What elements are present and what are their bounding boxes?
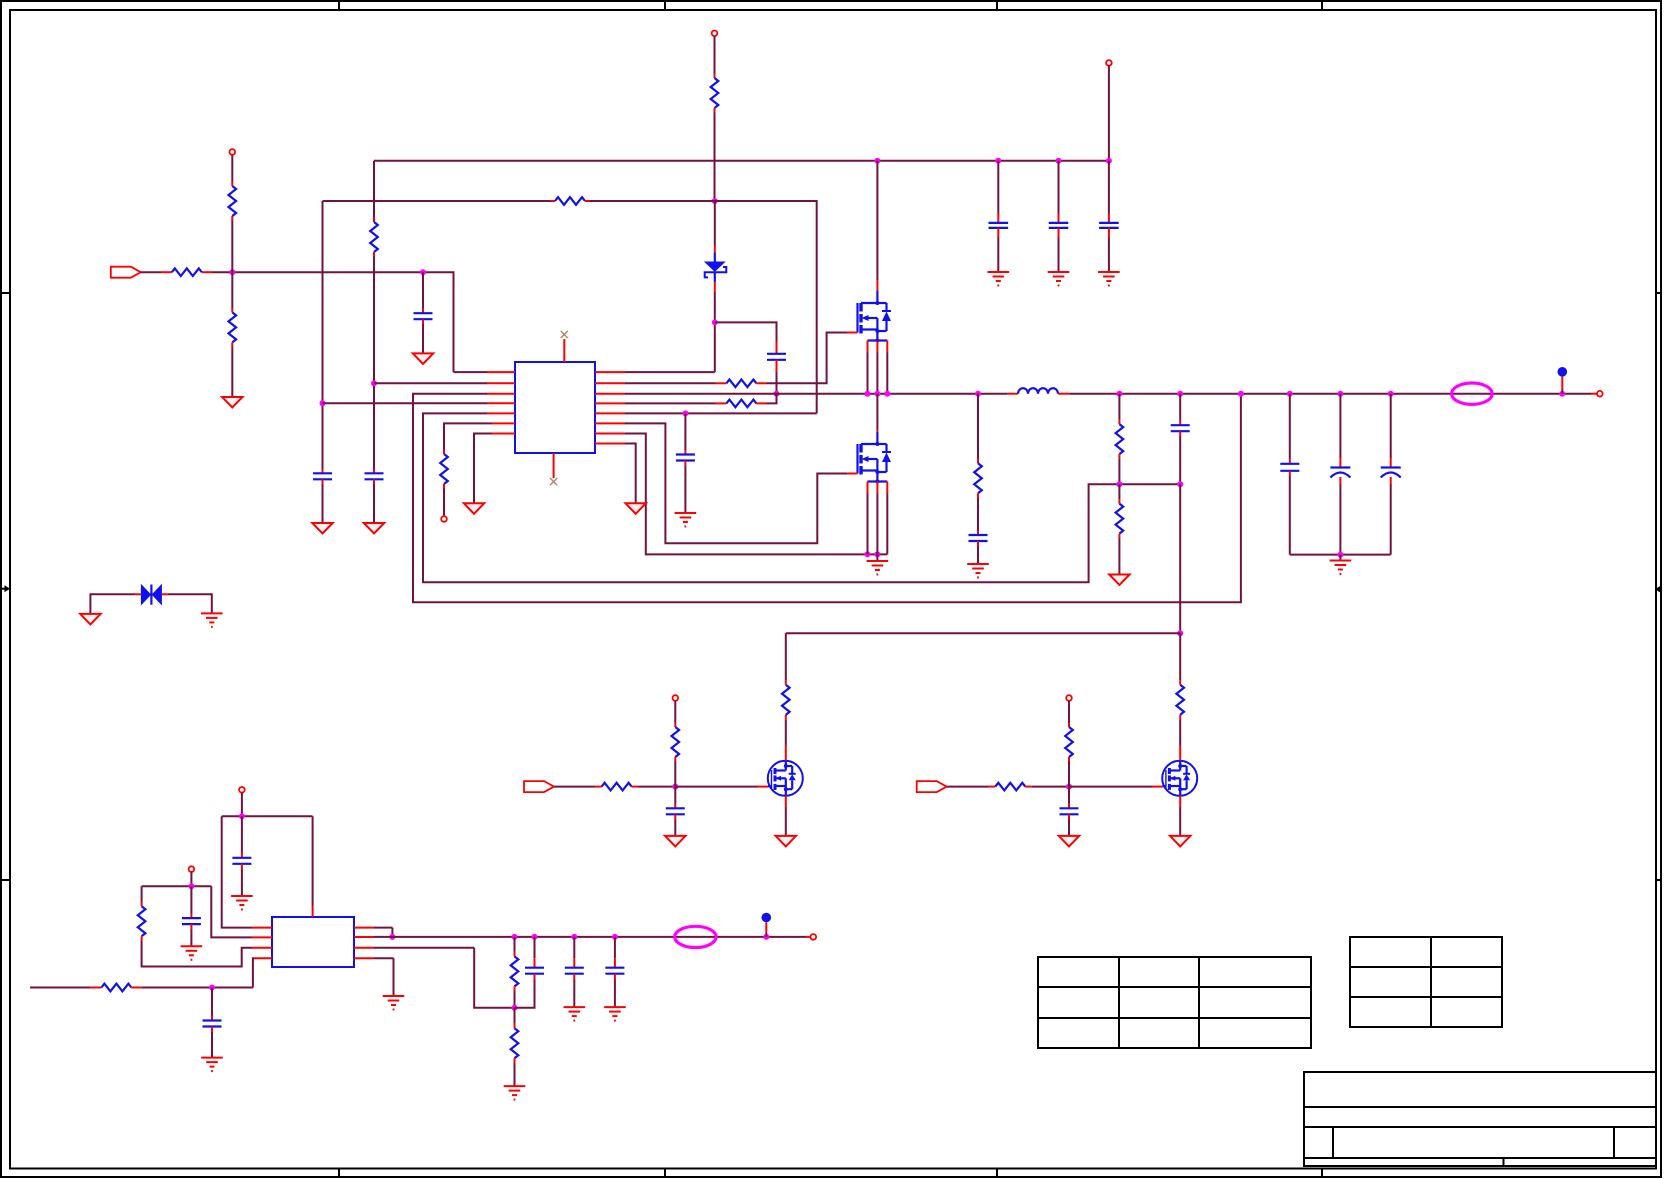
- wire to fb mid: [1118, 459, 1120, 485]
- junction enable: [188, 883, 194, 889]
- port pullup top: [230, 149, 236, 155]
- U1 top pin stub: [563, 339, 565, 362]
- wire input2 to U2: [142, 958, 254, 987]
- junction input node: [229, 269, 235, 275]
- wire junction to gate A: [675, 786, 768, 788]
- wire resistor leg: [141, 886, 143, 906]
- earth ground div2: [504, 1086, 526, 1100]
- wire R5 row VIN: [625, 412, 817, 414]
- test point TP2: [762, 913, 772, 937]
- capacitor C16 input2: [203, 988, 222, 1058]
- ground arrow fet source B: [1170, 836, 1190, 847]
- wire L5 feedback line B: [423, 413, 1180, 582]
- wire VCC port down: [1108, 66, 1110, 161]
- resistor R5 pullup: [229, 182, 237, 217]
- junction ff bottom: [1177, 481, 1183, 487]
- junction src c: [884, 391, 890, 397]
- earth ground C16: [201, 1058, 223, 1072]
- IC U2 ldo regulator: [272, 917, 354, 967]
- wire x232 down: [231, 272, 233, 312]
- capacitor C5 vin: [676, 413, 695, 512]
- earth ground C19: [604, 1007, 626, 1021]
- left border mid arrow: [2, 585, 10, 592]
- transistor margin fet B: [1162, 761, 1197, 796]
- wire R4 to corner x453: [213, 272, 454, 372]
- resistor R7 soft-start: [440, 454, 448, 489]
- capacitor C12 bypass: [1049, 161, 1069, 272]
- U2 top pin stub: [312, 906, 314, 918]
- wire L7 to ground: [474, 434, 492, 504]
- capacitor C17 out2: [515, 937, 545, 1008]
- wire Q1 source legs: [868, 353, 888, 394]
- wire bus y201: [323, 200, 556, 202]
- junction VIN cap node: [682, 410, 688, 416]
- junction U2 vin: [239, 813, 245, 819]
- resistor R11 fb high: [1116, 424, 1124, 459]
- port margin A: [524, 781, 554, 792]
- resistor R1 top pullup: [711, 78, 719, 113]
- ground arrow C3: [413, 353, 433, 364]
- ground arrow divider: [1109, 575, 1129, 586]
- ground arrow R6: [222, 397, 242, 408]
- earth ground U2: [383, 996, 405, 1010]
- wire divider top: [1118, 394, 1120, 424]
- wire div2 mid: [514, 991, 516, 1008]
- junction L4: [320, 400, 326, 406]
- capacitor C11 bypass: [989, 161, 1009, 272]
- earth ground C11: [988, 272, 1010, 286]
- small table: [1350, 937, 1502, 1027]
- capacitor C3 x423: [414, 272, 433, 353]
- wire L6 to resistor: [444, 423, 492, 454]
- junction margin A: [672, 784, 678, 790]
- wire port to R B: [947, 786, 996, 788]
- capacitor C18 out2: [565, 937, 584, 1007]
- earth ground TVS right: [201, 613, 223, 627]
- resistor margin series A: [602, 783, 639, 791]
- resistor R2 on y201 bus: [555, 197, 590, 205]
- junction C13: [1106, 158, 1112, 164]
- junction margin node: [1177, 630, 1183, 636]
- wire drain upper: [876, 161, 878, 291]
- wire x374 down: [373, 257, 375, 470]
- wire Q2 source legs: [868, 494, 888, 555]
- capacitor C6 snubber: [969, 535, 988, 564]
- wire port to R4: [141, 271, 172, 273]
- capacitor C8 out: [1280, 394, 1299, 555]
- resistor R13 enable: [138, 906, 146, 941]
- wire enable loop: [142, 872, 252, 938]
- wire R7 to test pad: [443, 489, 445, 517]
- earth ground C15: [181, 946, 203, 960]
- node A junction: [712, 198, 718, 204]
- ground arrow U1 right: [626, 503, 646, 514]
- earth ground out caps: [1330, 555, 1352, 574]
- U1 pin stubs left: [487, 372, 515, 433]
- output bus after inductor: [1069, 393, 1597, 395]
- title block: [1304, 1072, 1656, 1166]
- wire R2 row gate drive: [625, 382, 726, 384]
- capacitor C15 enable: [182, 886, 201, 946]
- wire R9 to SW bus: [767, 394, 777, 404]
- junction out2 cap3: [612, 934, 618, 940]
- junction U2 out a: [389, 934, 395, 940]
- junction boot node: [712, 319, 718, 325]
- wire R4 row SW sense: [625, 402, 726, 404]
- earth ground lower source: [867, 554, 889, 574]
- diode D2 TVS bidirectional: [141, 584, 162, 606]
- junction C12: [1056, 158, 1062, 164]
- resistor margin drain B: [1176, 680, 1184, 715]
- wire TVS left: [90, 594, 140, 614]
- wire U2 pin4 gnd: [374, 958, 394, 995]
- earth ground C5: [675, 513, 697, 527]
- junction test point: [1559, 391, 1565, 397]
- ground arrow TVS left: [80, 614, 100, 625]
- wire drain A up to margin link: [785, 633, 787, 680]
- ground arrow margin cap A: [665, 836, 685, 847]
- junction src b: [874, 391, 880, 397]
- ferrite bead FB1: [1452, 383, 1493, 404]
- transistor Q2 low-side: [847, 432, 891, 494]
- wire R to junction A: [638, 786, 675, 788]
- resistor R3 x374: [370, 222, 378, 257]
- earth ground C14: [231, 896, 253, 910]
- IC U1 buck controller: [515, 362, 595, 453]
- junction TP2: [763, 934, 769, 940]
- junction src a: [865, 391, 871, 397]
- wire R6 row lower gate: [625, 423, 847, 543]
- wire port to resistor: [714, 36, 716, 78]
- wire pullup bottom B: [1068, 762, 1070, 787]
- junction sense a: [865, 551, 871, 557]
- wire R2 to node A: [590, 200, 715, 202]
- capacitor C4 bootstrap: [767, 354, 786, 394]
- junction out cap3: [1388, 391, 1394, 397]
- wire R7 row source sense: [625, 434, 887, 555]
- wire L1 VIN sense: [454, 371, 488, 373]
- port margin B: [917, 781, 947, 792]
- wire fet drain B: [1179, 715, 1181, 761]
- junction sense b: [874, 551, 880, 557]
- wire fet source A: [785, 796, 787, 836]
- junction snubber: [975, 391, 981, 397]
- ground arrow U1 left: [464, 503, 484, 514]
- U1 pin stubs right: [595, 372, 625, 443]
- SW output bus y393: [625, 393, 1018, 395]
- resistor R4 input series: [172, 268, 213, 276]
- wire x232 up: [231, 216, 233, 272]
- top bus y160: [374, 160, 1109, 162]
- wire R12 to ground: [1118, 538, 1120, 574]
- wire div2 down: [514, 1008, 516, 1029]
- capacitor C9 out polarized: [1330, 394, 1350, 555]
- capacitor C14 U2 vin: [232, 816, 251, 895]
- diode top lead: [714, 201, 716, 252]
- diode D1 schottky: [704, 252, 726, 282]
- wire R1 row to diode: [625, 282, 715, 372]
- capacitor C2 x374: [365, 469, 384, 523]
- ground arrow fet source A: [776, 836, 796, 847]
- earth ground C13: [1098, 272, 1120, 286]
- earth ground snubber: [967, 564, 989, 578]
- wire x374 top segment: [373, 161, 375, 222]
- junction L2: [371, 380, 377, 386]
- wire input2 line: [30, 987, 101, 989]
- port VOUT2: [811, 934, 817, 940]
- wire pullup top B: [1068, 701, 1070, 727]
- resistor R10 snubber: [974, 463, 982, 498]
- test point TP1: [1558, 367, 1568, 394]
- port EN input: [111, 267, 141, 278]
- wire U2 vin loop: [222, 793, 313, 928]
- junction input2: [209, 985, 215, 991]
- wire R13 loop to pin3: [142, 941, 252, 967]
- wire junction to gate B: [1069, 786, 1162, 788]
- U2 output bus: [374, 936, 811, 938]
- wire drain B up to margin node: [1179, 633, 1181, 680]
- port VIN top: [712, 31, 718, 37]
- port VCC top right: [1106, 60, 1112, 66]
- wire node A to x816 corner: [715, 201, 817, 413]
- port enable U2: [189, 866, 195, 872]
- transistor Q1 high-side: [847, 291, 891, 353]
- junction fb mid: [1116, 481, 1122, 487]
- junction top bus drain: [874, 158, 880, 164]
- capacitor C10 out polarized: [1381, 394, 1401, 555]
- wire x322 vertical: [322, 201, 324, 469]
- capacitor C7 feed-forward: [1171, 425, 1190, 484]
- U1 bottom pin stub: [553, 453, 555, 478]
- wire x714 down to node A: [714, 113, 716, 202]
- resistor R12 fb low: [1116, 504, 1124, 538]
- capacitor C13 bypass: [1099, 161, 1119, 272]
- wire pullup bottom A: [674, 762, 676, 787]
- ground arrow margin cap B: [1059, 836, 1079, 847]
- junction fb divider top: [1116, 391, 1122, 397]
- wire drain lower: [876, 394, 878, 432]
- wire R to junction B: [1032, 786, 1069, 788]
- capacitor C1 x322: [313, 469, 332, 523]
- transistor margin fet A: [768, 761, 803, 796]
- junction out cap2: [1337, 391, 1343, 397]
- wire pullup top A: [674, 701, 676, 727]
- wire L3 feedback line A: [413, 394, 1241, 603]
- junction caps gnd: [1337, 552, 1343, 558]
- right border mid arrow: [1655, 586, 1661, 593]
- wire R16 gnd: [514, 1063, 516, 1086]
- port margin pullup A: [673, 695, 679, 701]
- resistor R9 SW sense: [726, 400, 766, 408]
- U2 pin stubs left: [252, 928, 272, 959]
- earth ground C18: [564, 1007, 586, 1021]
- resistor margin series B: [995, 783, 1032, 791]
- wire ff cap top: [1179, 394, 1181, 426]
- wire fet drain A: [785, 715, 787, 761]
- wire port to R A: [554, 786, 602, 788]
- wire U2 pin1 to bus: [374, 928, 392, 937]
- wire snubber top: [977, 394, 979, 464]
- U2 pin stubs right: [354, 928, 374, 959]
- junction out2 cap1: [532, 934, 538, 940]
- wire L2 from x374: [374, 382, 487, 384]
- junction C11: [995, 158, 1001, 164]
- junction boot-SW: [774, 391, 780, 397]
- wire fb mid down: [1118, 484, 1120, 503]
- resistor margin drain A: [782, 680, 790, 715]
- port VOUT right: [1597, 391, 1603, 397]
- wire R6 to ground: [231, 347, 233, 397]
- junction margin B: [1066, 784, 1072, 790]
- ferrite bead FB2: [675, 926, 716, 947]
- junction out2 cap2: [571, 934, 577, 940]
- wire R5 to port: [231, 155, 233, 182]
- wire TVS right: [162, 594, 212, 613]
- wire out caps gnd link: [1290, 554, 1391, 556]
- wire R8 row to ground: [625, 444, 636, 504]
- junction div2 top: [512, 934, 518, 940]
- wire x1180 down to margin node: [1179, 484, 1181, 633]
- no-connect X bottom: [550, 478, 557, 485]
- wire snubber mid: [977, 498, 979, 535]
- junction ff cap top: [1177, 391, 1183, 397]
- ground arrow C1: [312, 523, 332, 534]
- open pad circle: [441, 516, 447, 522]
- wire div2 top: [514, 937, 516, 957]
- junction out cap1: [1287, 391, 1293, 397]
- ground arrow C2: [364, 523, 384, 534]
- capacitor margin A: [666, 787, 685, 836]
- wire boot node to cap: [715, 322, 777, 353]
- wire L4 from x322: [323, 402, 488, 404]
- capacitor margin B: [1060, 787, 1079, 836]
- port VCC U2: [239, 787, 245, 793]
- no-connect X top: [561, 331, 568, 338]
- resistor margin pullup B: [1065, 727, 1073, 762]
- resistor R14 input2: [101, 984, 141, 992]
- wire R8 to upper gate: [767, 333, 848, 384]
- wire fet source B: [1179, 796, 1181, 836]
- revision table: [1038, 957, 1311, 1048]
- resistor margin pullup A: [672, 727, 680, 762]
- resistor R6 pulldown: [229, 312, 237, 347]
- earth ground C12: [1048, 272, 1070, 286]
- wire U2 pin3 fb: [374, 948, 515, 1008]
- inductor L1: [1018, 388, 1069, 393]
- wire margin link: [786, 632, 1180, 634]
- resistor R8 gate: [726, 380, 766, 388]
- port margin pullup B: [1066, 695, 1072, 701]
- resistor R15 fb2 high: [511, 956, 519, 991]
- junction line A at bus: [1238, 391, 1244, 397]
- resistor R16 fb2 low: [511, 1028, 519, 1063]
- junction cap node x423: [420, 269, 426, 275]
- junction div2 mid: [512, 1005, 518, 1011]
- capacitor C19 out2: [605, 937, 624, 1007]
